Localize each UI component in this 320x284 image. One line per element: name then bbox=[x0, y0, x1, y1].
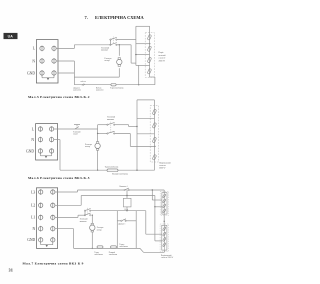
wire N from X1 (sch3) bbox=[55, 228, 74, 230]
svg-text:Термозапобіжник: Термозапобіжник bbox=[105, 165, 119, 168]
wire L3 bus bbox=[78, 189, 165, 191]
heating element B1 (sch3) bbox=[163, 227, 166, 231]
schematic1 X1 terminal pair row 2 bbox=[40, 58, 56, 64]
svg-text:N: N bbox=[33, 227, 36, 231]
wire N from X1 (sch2) bbox=[54, 139, 60, 141]
wire relay K1 bottom bbox=[126, 207, 128, 211]
svg-text:N: N bbox=[31, 138, 34, 142]
svg-text:вимикач: вимикач bbox=[80, 221, 87, 223]
junction chain A-B bbox=[164, 221, 165, 222]
schematic2 X1 terminal pair row 2 bbox=[38, 137, 53, 143]
wire jumper S1 poles bbox=[109, 40, 111, 45]
heating element E4 bbox=[147, 68, 151, 74]
wire N from X1 bbox=[56, 60, 74, 62]
svg-text:GND: GND bbox=[26, 149, 34, 153]
label: Головний вимикач (S1 sch2) bbox=[107, 116, 116, 121]
wire tap B1 (sch3) bbox=[146, 233, 162, 235]
svg-text:GND: GND bbox=[27, 238, 35, 242]
svg-text:7.: 7. bbox=[85, 15, 88, 20]
main switch S1 pole a (sch3) bbox=[84, 209, 91, 212]
wire tap E1-E2 (sch2) bbox=[137, 117, 154, 119]
heater chain B dashed enclosure bbox=[160, 224, 169, 251]
main switch S1 pole a (sch2) bbox=[107, 123, 115, 126]
wire to S3 (sch3) bbox=[117, 220, 121, 222]
wire L1 to S1 (sch3) bbox=[78, 214, 85, 216]
junction motor feed (sch3) bbox=[92, 215, 93, 216]
junction motor feed bbox=[119, 44, 120, 45]
wire chain A to B (sch3) bbox=[163, 214, 165, 225]
label: Нагрівальний елемент (sch2) bbox=[159, 162, 172, 170]
chain A internal wire bbox=[163, 193, 165, 214]
svg-text:елемент: елемент bbox=[159, 58, 166, 60]
svg-text:2000 W: 2000 W bbox=[159, 167, 165, 169]
junction relay-S1a bbox=[126, 210, 127, 211]
label: Термозапобіжник (sch2) bbox=[105, 165, 119, 168]
svg-text:Мал.5 Електрична схема ВКЗ-К-2: Мал.5 Електрична схема ВКЗ-К-2 bbox=[28, 95, 90, 99]
wire L from X1 bbox=[56, 47, 74, 49]
cable break symbol (power cord) bbox=[82, 84, 85, 86]
label: кабель живлення tag bbox=[81, 80, 86, 83]
wire L1 from X1 bbox=[55, 216, 78, 218]
wire chain bottom drop bbox=[154, 77, 156, 85]
wire chain bottom link bbox=[149, 76, 155, 78]
heating element A4 (sch3) bbox=[163, 209, 166, 213]
wire V rail b (sch3) bbox=[135, 211, 137, 249]
junction tap E3-E4 (sch2) bbox=[154, 146, 155, 147]
svg-text:вимикач: вимикач bbox=[101, 50, 108, 52]
motor M1 (circle with brush blocks) bbox=[117, 58, 122, 67]
ground symbol inside schematic2 X1 bbox=[40, 153, 51, 158]
wire L2 from X1 bbox=[55, 204, 81, 206]
wire tap A2 (sch3) bbox=[155, 206, 162, 208]
wire L to main switch S1 bbox=[74, 44, 110, 46]
label: Електро мотор (sch2) bbox=[85, 144, 92, 148]
heating element E3 bbox=[147, 57, 151, 63]
wire drop to tap B1 (sch3) bbox=[145, 211, 147, 235]
heater chain B box (sch3) bbox=[162, 225, 167, 250]
thermal fuse F1 (sch3) (fuse capsule) bbox=[97, 246, 103, 248]
main switch S1 pole b (sch2) bbox=[107, 131, 115, 134]
wire motor M1 return bbox=[118, 68, 120, 77]
svg-text:31: 31 bbox=[9, 268, 14, 272]
svg-text:живлення: живлення bbox=[96, 89, 104, 91]
heating element B3 (sch3) bbox=[163, 237, 166, 241]
heating element E1 (sch2) bbox=[152, 109, 156, 115]
svg-text:запобіжник: запобіжник bbox=[109, 253, 117, 256]
wire S1a out (sch3) bbox=[90, 210, 146, 212]
junction motor return (sch2) bbox=[97, 170, 98, 171]
wire L3 step bbox=[77, 190, 79, 192]
schematic3 X1 terminal pair row 3 bbox=[39, 215, 55, 221]
wire tap E1-E2 bbox=[136, 43, 150, 45]
wire S1 feed split (sch2) bbox=[97, 125, 99, 134]
svg-text:елемент 2000 W: елемент 2000 W bbox=[161, 257, 174, 259]
junction L3 bus drop bbox=[152, 189, 153, 190]
wire return to chain B (sch3) bbox=[144, 251, 165, 253]
wire chain A top (sch3) bbox=[163, 190, 165, 193]
wire N drop (sch2) bbox=[59, 140, 61, 170]
svg-text:Мал.7 Електрична схема ВКЗ К 9: Мал.7 Електрична схема ВКЗ К 9 bbox=[23, 262, 84, 266]
svg-text:Термозапобіжник: Термозапобіжник bbox=[110, 86, 124, 89]
wire S1a out bbox=[116, 39, 135, 41]
thermal fuse F1 (fuse capsule) bbox=[111, 84, 116, 86]
S1 mechanical link (sch2) bbox=[110, 122, 112, 133]
label: Термозапобіжник (F1) bbox=[110, 86, 124, 89]
wire S1a out (sch2) bbox=[114, 124, 128, 126]
schematic1 X1 terminal pair row 1 bbox=[40, 46, 56, 52]
wire jumper S1 poles (sch3) bbox=[84, 211, 86, 216]
chain B internal wire bbox=[163, 225, 165, 250]
junction relay top bbox=[126, 195, 127, 196]
wire tap A1 (sch3) bbox=[152, 199, 162, 201]
svg-text:запобіжник: запобіжник bbox=[119, 245, 127, 248]
svg-text:Плавкий запобіжник: Плавкий запобіжник bbox=[112, 172, 128, 175]
wire to chain top (sch2) bbox=[137, 99, 154, 101]
label: Електро мотор (M1) bbox=[105, 58, 112, 62]
wire relay K1 top bbox=[126, 190, 128, 198]
wire drop to tap B2 (sch3) bbox=[154, 196, 156, 241]
label: Головний вимикач (sch3) bbox=[80, 218, 88, 223]
ground symbol inside schematic1 X1 bbox=[42, 75, 54, 80]
schematic3 X1 terminal pair row 2 bbox=[39, 203, 55, 209]
wire L from X1 (sch2) bbox=[54, 128, 98, 130]
schematic3 X1 terminal pair row 5 bbox=[39, 237, 55, 243]
svg-text:L1: L1 bbox=[31, 216, 35, 220]
schematic2 X1 terminal pair row 3 bbox=[38, 148, 53, 154]
svg-text:вальний: вальний bbox=[159, 54, 167, 57]
label: Нагрівальний елемент 2000 W (sch1) bbox=[159, 52, 167, 62]
heating element B4 (sch3) bbox=[163, 243, 166, 247]
svg-text:запобіжник: запобіжник bbox=[94, 253, 102, 256]
wire L2 riser bbox=[80, 196, 82, 206]
svg-text:живлення: живлення bbox=[73, 89, 81, 91]
label: Реле (K1) bbox=[125, 209, 129, 211]
heating element E3 (sch2) bbox=[152, 137, 156, 143]
wire drop to tap A1 (sch3) bbox=[151, 190, 153, 200]
wire to S1b (sch2) bbox=[98, 133, 108, 135]
wire S3 out (sch3) bbox=[126, 220, 137, 222]
label: Головний вимикач (S1) bbox=[101, 46, 110, 51]
wire S1b out bbox=[116, 44, 131, 46]
heating element A3 (sch3) bbox=[163, 204, 166, 208]
heating element A2 (sch3) bbox=[163, 199, 166, 203]
relay K1 bbox=[123, 198, 131, 207]
heater chain A box (sch3) bbox=[162, 193, 167, 214]
svg-text:Мал.6 Електрична схема ВКЗ-К-5: Мал.6 Електрична схема ВКЗ-К-5 bbox=[28, 176, 90, 180]
heating element E2 (sch2) bbox=[152, 123, 156, 129]
schematic3 X1 terminal block box bbox=[37, 188, 58, 249]
junction tap A2 (sch3) bbox=[154, 206, 155, 207]
wire bottom return (sch2) bbox=[60, 169, 155, 171]
junction bus tap bbox=[135, 54, 136, 55]
svg-text:2000 W: 2000 W bbox=[159, 60, 165, 62]
thermal fuse F1 (sch2) (fuse capsule) bbox=[107, 169, 118, 172]
svg-text:L2: L2 bbox=[31, 204, 35, 208]
svg-text:L3: L3 bbox=[31, 190, 35, 194]
svg-text:UA: UA bbox=[8, 35, 14, 39]
heating element B2 (sch3) bbox=[163, 232, 166, 236]
schematic3 X1 terminal pair row 1 bbox=[39, 189, 55, 195]
heater chain A dashed enclosure bbox=[160, 191, 169, 215]
label: Плавкий запобіжник (F2 sch3) bbox=[109, 251, 117, 256]
wire S1b out (sch2) bbox=[114, 133, 130, 135]
heater chain vertical wire (sch2) bbox=[154, 100, 156, 170]
wire return jog (sch3) bbox=[140, 248, 144, 252]
wire S1a step (sch2) bbox=[128, 125, 130, 127]
wire tap E2-E3b bbox=[136, 54, 150, 56]
svg-text:N: N bbox=[32, 59, 35, 63]
label: Кабель живлення bbox=[96, 86, 104, 91]
wire V rail a (sch3) bbox=[116, 211, 118, 249]
wire S1a to bus (sch2) bbox=[129, 126, 137, 128]
wire tap E3-E4 bbox=[136, 64, 150, 66]
feed bus vertical (sch2) bbox=[136, 100, 138, 170]
junction bus return (sch2) bbox=[136, 170, 137, 171]
wire bottom return bbox=[74, 84, 154, 86]
heater dashed enclosure (sch2) bbox=[150, 106, 158, 163]
schematic3 X1 terminal pair row 4 bbox=[39, 226, 55, 232]
label: Вимикач 1 (S2) bbox=[120, 186, 128, 188]
junction tap E1-E2 bbox=[149, 43, 150, 44]
junction heater return bbox=[138, 84, 139, 85]
schematic1 X1 terminal pair row 3 bbox=[40, 70, 56, 76]
switch S3 (Двигун 1) bbox=[121, 219, 127, 222]
thermal cutout T1 symbol bbox=[74, 125, 80, 129]
label: Двигун 1 (S3) bbox=[118, 224, 125, 226]
schematic1 X1 terminal block box bbox=[36, 40, 58, 83]
heating element E4 (sch2) bbox=[152, 154, 156, 160]
motor M1 (sch2) (circle with brush blocks) bbox=[95, 142, 100, 151]
wire S1b drop bbox=[130, 45, 132, 63]
wire L2 bus bbox=[81, 195, 155, 197]
feed bus vertical bbox=[135, 26, 137, 65]
label: Тепловий захист (T1) bbox=[73, 131, 80, 136]
motor M1 (sch3) (circle with brush blocks) bbox=[90, 223, 95, 232]
wire L3 from X1 bbox=[55, 191, 78, 193]
ground symbol inside schematic3 X1 bbox=[41, 242, 53, 247]
svg-text:захист: захист bbox=[73, 134, 78, 136]
heating element E1 bbox=[147, 34, 151, 40]
wire to motor M1 (sch3) bbox=[91, 215, 93, 223]
main switch S1 pole b bbox=[110, 43, 117, 46]
heater chain vertical wire bbox=[149, 26, 151, 77]
wire to tap E3-E4 (sch2) bbox=[130, 145, 155, 147]
label: Термо-запобіжник tag (sch3) bbox=[119, 244, 127, 248]
UA language tab bbox=[4, 33, 18, 39]
main switch S1 pole b (sch3) bbox=[84, 213, 91, 216]
svg-text:Вимикач 1: Вимикач 1 bbox=[120, 186, 128, 188]
wire N drop bbox=[73, 61, 75, 85]
heating element E2 bbox=[147, 46, 151, 52]
label: Електро мотор (sch3) bbox=[97, 227, 104, 231]
wire L riser bbox=[73, 45, 75, 49]
switch S2 (Вимикач 1) break on L3 bus bbox=[124, 188, 129, 191]
heating element A1 (sch3) bbox=[163, 194, 166, 198]
svg-text:вимикач: вимикач bbox=[107, 119, 114, 121]
svg-text:кабель: кабель bbox=[81, 80, 86, 83]
wire N drop (sch3) bbox=[73, 229, 75, 249]
svg-text:мотор: мотор bbox=[105, 60, 110, 62]
heater dashed enclosure bbox=[145, 33, 154, 78]
label: Термо запобіжник (F1 sch3) bbox=[94, 252, 102, 256]
wire to motor M1 (sch2) bbox=[97, 134, 99, 142]
S1 mechanical link (dashed) bbox=[112, 37, 114, 44]
fuse F2 (sch3) (fuse capsule) bbox=[111, 246, 117, 248]
wire to S1a (sch2) bbox=[98, 124, 108, 126]
S1 mechanical link (sch3) bbox=[87, 208, 89, 214]
wire tap B2 (sch3) bbox=[155, 240, 162, 242]
label: Нагрівальний елемент (sch3) bbox=[161, 254, 174, 259]
wire to motor M1 bbox=[118, 45, 120, 56]
wire S1b to bus bottom bbox=[131, 62, 136, 64]
junction motor return (sch3) bbox=[92, 248, 93, 249]
schematic2 X1 terminal block box bbox=[36, 124, 58, 160]
wire motor return bbox=[74, 76, 119, 78]
schematic2 X1 terminal pair row 1 bbox=[38, 126, 53, 132]
wire bottom return (sch3) bbox=[74, 247, 140, 249]
junction motor feed (sch2) bbox=[97, 133, 98, 134]
wire GND from X1 bbox=[58, 72, 74, 74]
svg-text:мотор: мотор bbox=[97, 229, 102, 231]
main switch S1 pole a bbox=[110, 37, 117, 40]
wire chain B bottom (sch3) bbox=[163, 250, 165, 252]
svg-text:Двигун 1: Двигун 1 bbox=[118, 224, 125, 226]
wire motor return (sch2) bbox=[97, 150, 99, 170]
label: Плавкий запобіжник (sch2) bbox=[112, 172, 128, 175]
svg-text:GND: GND bbox=[27, 71, 35, 75]
heater return drop bbox=[138, 65, 140, 84]
junction bus feed (sch2) bbox=[136, 126, 137, 127]
svg-text:Нагрі-: Нагрі- bbox=[159, 52, 165, 54]
wire L1 step bbox=[77, 215, 79, 217]
wire drop (sch2) bbox=[129, 134, 131, 147]
wire tap E2-E3 (sch2) bbox=[137, 133, 154, 135]
label: Джерело живлення bbox=[73, 87, 81, 91]
svg-text:ЕЛЕКТРИЧНА СХЕМА: ЕЛЕКТРИЧНА СХЕМА bbox=[95, 15, 144, 20]
wire motor return (sch3) bbox=[91, 232, 93, 248]
wire to heater chain top bbox=[136, 25, 150, 27]
svg-text:мотор: мотор bbox=[85, 146, 90, 148]
